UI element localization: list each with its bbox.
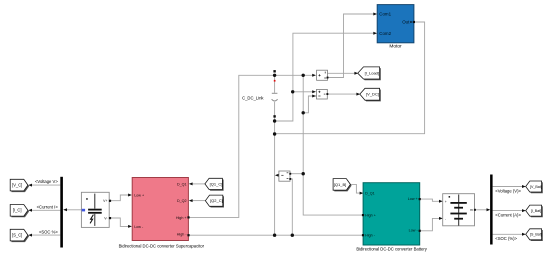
svg-text:-: - [445, 217, 446, 221]
from tag Q1_B [333, 179, 352, 192]
svg-text:[S_Bat]: [S_Bat] [530, 233, 542, 237]
supercap converter block [132, 178, 189, 241]
wire supercap m to left bus selector [64, 209, 82, 211]
svg-text:<Current I>: <Current I> [37, 204, 59, 209]
bus selector left [60, 177, 63, 248]
arrow into V_DC tag [356, 93, 360, 96]
wire left bus selector to I_C tag [30, 209, 61, 211]
goto tag S_Bat [526, 229, 543, 241]
arrow into S_C tag [28, 234, 32, 237]
voltage sensor U3 [279, 171, 291, 181]
node DC+ at capacitor top [273, 74, 276, 77]
arrow into voltage sensor plus [312, 90, 316, 93]
svg-text:V-: V- [104, 216, 107, 220]
wire right bus selector to I_Bat tag [493, 210, 524, 212]
wire voltage sensor minus input elbow [303, 96, 316, 113]
wire Q1_C tag to supercap converter D_Q1 [190, 183, 205, 185]
node capacitor top port [273, 70, 275, 72]
arrow into I_Bat tag [522, 209, 526, 212]
wire motor Com1 to current sensor terminal [327, 14, 374, 78]
wire supercap V- to converter Low- [109, 218, 128, 226]
svg-text:High -: High - [177, 233, 188, 237]
svg-text:Low -: Low - [134, 225, 144, 229]
ARROWHEADS [28, 13, 526, 237]
arrow into motor Com1 [373, 13, 377, 16]
arrow into V_C tag [28, 184, 32, 187]
svg-text:<Voltage V>: <Voltage V> [35, 179, 58, 184]
svg-text:[V_DC]: [V_DC] [366, 92, 379, 97]
node DC+ at sensor branch [302, 74, 305, 77]
svg-text:High -: High - [365, 233, 376, 237]
from tag Q1_C [205, 178, 224, 190]
wire Q1_B tag to battery converter D_Q1 [350, 184, 360, 193]
node DC+ at sensor U3 tap [302, 172, 305, 175]
svg-text:C_DC_Link: C_DC_Link [242, 95, 264, 100]
wire right bus selector to S_Bat tag [493, 233, 524, 235]
supercapacitor block [81, 192, 111, 227]
goto tag I_C [10, 205, 29, 218]
svg-text:Com2: Com2 [379, 31, 391, 36]
node High- at capacitor branch [273, 234, 276, 237]
wire supercap V+ to converter Low+ [109, 195, 128, 201]
arrow into supercap converter Low+ [128, 194, 132, 197]
wire sensor U3 top terminal [290, 173, 303, 175]
arrow into I_Load tag [354, 72, 358, 75]
wire battery converter Low- to battery [420, 218, 440, 230]
svg-text:<Current (A)>: <Current (A)> [495, 213, 521, 218]
node capacitor red mark [274, 80, 276, 82]
wire voltage sensor to V_DC tag [327, 93, 357, 95]
current sensor U1 [317, 70, 329, 80]
wire left bus selector to S_C tag [30, 234, 61, 236]
svg-text:<SOC %>: <SOC %> [39, 229, 58, 234]
svg-text:[Q1_B]: [Q1_B] [334, 182, 346, 187]
motor subsystem block [377, 5, 415, 43]
svg-text:+: + [445, 200, 447, 204]
svg-text:D_Q2: D_Q2 [177, 199, 187, 203]
svg-text:Motor: Motor [389, 44, 402, 50]
node High- at sensor U3 branch [291, 234, 294, 237]
svg-text:Low +: Low + [408, 197, 418, 201]
voltage sensor U2 [317, 89, 329, 99]
node DC- at Com2 elbow [273, 119, 276, 122]
arrow into supercap converter Low- [128, 225, 132, 228]
arrow into supercap converter D_Q2 [189, 199, 193, 202]
svg-text:[S_C]: [S_C] [12, 233, 22, 238]
wire sensor U3 output stub [276, 174, 279, 176]
arrow out of sensor U3 left [275, 174, 279, 177]
node DC- at motor out rail [273, 132, 276, 135]
svg-text:V+: V+ [103, 199, 107, 203]
goto tag I_Bat [526, 205, 543, 217]
arrow into S_Bat tag [522, 233, 526, 236]
from tag Q2_C [205, 195, 224, 207]
svg-text:High +: High + [176, 216, 187, 220]
svg-text:Com1: Com1 [379, 12, 391, 17]
wire High- rail between converters [189, 234, 364, 236]
node capacitor bottom port [273, 115, 275, 117]
svg-text:<Voltage (V)>: <Voltage (V)> [495, 188, 521, 193]
svg-text:Low -: Low - [409, 228, 419, 232]
arrow into supercap converter D_Q1 [189, 182, 193, 185]
arrow into battery plus [439, 200, 443, 203]
arrow into battery converter D_Q1 [360, 192, 364, 195]
svg-text:[Q2_C]: [Q2_C] [210, 198, 223, 203]
goto tag V_C [10, 179, 29, 192]
arrow into left bus selector [63, 208, 67, 211]
arrow into battery minus [439, 217, 443, 220]
wire motor Com2 to DC- net vertical [275, 33, 375, 121]
goto tag V_DC [360, 88, 381, 101]
svg-text:D_Q1: D_Q1 [365, 191, 375, 195]
svg-text:Bidirectional DC-DC converter: Bidirectional DC-DC converter Battery [356, 246, 427, 251]
capacitor C_DC_Link plates [272, 93, 278, 101]
svg-text:Low +: Low + [134, 193, 144, 197]
wire DC+ top rail to current sensor input [189, 75, 314, 217]
battery block [443, 194, 476, 226]
svg-text:m: m [470, 208, 473, 212]
svg-text:[Q1_C]: [Q1_C] [210, 181, 223, 186]
wire sensor U3 bottom terminal down to High- rail [290, 179, 292, 235]
wire battery converter Low+ to battery [420, 199, 440, 201]
svg-text:High +: High + [365, 213, 376, 217]
wire DC+ vertical to battery converter High+ [303, 75, 363, 215]
wire left bus selector to V_C tag [30, 184, 61, 186]
svg-text:D_Q1: D_Q1 [177, 182, 187, 186]
arrow into V_Bat tag [522, 185, 526, 188]
svg-text:<SOC (%)>: <SOC (%)> [495, 236, 517, 241]
bus selector right [490, 175, 493, 245]
node DC+ at voltage sensor minus tap [302, 111, 305, 114]
svg-text:[I_Bat]: [I_Bat] [531, 209, 541, 213]
svg-text:[V_C]: [V_C] [12, 183, 22, 188]
svg-text:[V_Bat]: [V_Bat] [530, 185, 542, 189]
wire battery m to right bus selector [475, 209, 489, 211]
wire Q2_C tag to supercap converter D_Q2 [190, 200, 205, 202]
wire voltage sensor plus input [293, 91, 313, 93]
wire C_DC_Link vertical bottom lead down to High- rail [274, 102, 276, 235]
arrow into I_C tag [28, 209, 32, 212]
arrow into right bus selector [487, 208, 491, 211]
svg-text:[I_Load]: [I_Load] [365, 71, 379, 76]
svg-text:Out: Out [402, 20, 410, 25]
wire motor Out down and left to DC- rail [275, 22, 425, 134]
JUNCTION DOTS [273, 70, 305, 237]
goto tag V_Bat [526, 181, 543, 193]
wire C_DC_Link vertical top lead [274, 75, 276, 93]
node DC- at voltage sensor plus tap [291, 90, 294, 93]
arrow into voltage sensor minus [312, 95, 316, 98]
wire current sensor to I_Load tag [327, 72, 355, 74]
svg-text:[I_C]: [I_C] [13, 208, 22, 213]
goto tag S_C [10, 229, 29, 242]
arrow into current sensor left [312, 74, 316, 77]
svg-text:Bidirectional DC-DC converter: Bidirectional DC-DC converter Supercapac… [119, 243, 205, 248]
arrow into motor Com2 [373, 32, 377, 35]
goto tag I_Load [358, 67, 381, 80]
wire right bus selector to V_Bat tag [493, 186, 524, 188]
battery converter block [362, 183, 421, 245]
